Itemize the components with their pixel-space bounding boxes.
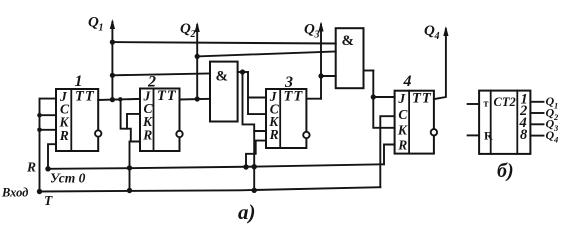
svg-text:Q: Q [180,21,191,37]
wire FF1 K stub [40,129,57,131]
wire reset line Уст 0 [48,164,384,169]
wire AND2 output [364,70,374,72]
svg-text:C: C [398,107,408,122]
svg-text:3: 3 [314,30,320,41]
wire AND1 to FF3 K [243,72,267,131]
wire FF1 Q output to FF2 J [98,99,140,100]
svg-text:TT: TT [157,88,177,104]
node T riser to input line [37,189,42,194]
wire FF1 C stub [40,114,57,116]
svg-text:&: & [216,69,229,85]
node FF1 C junction [37,113,42,118]
wire FF1 R stub down to reset line [48,144,56,169]
node Q3 to AND2 [318,73,323,78]
wire clock input line Вход [40,187,381,191]
svg-text:1: 1 [554,101,558,111]
wire counter T input stub [468,103,480,105]
wire counter output stub 1 [530,101,543,103]
wire FF3 J stub [248,97,266,99]
node FF3 R on reset line [243,164,248,169]
svg-text:R: R [59,128,69,143]
wire Q1 to AND1 input [112,74,210,76]
wire counter output stub 2 [530,112,543,114]
svg-text:т: т [484,99,489,110]
svg-text:Вход: Вход [1,186,28,200]
wire FF2 riser to input line [129,142,131,191]
svg-text:R: R [484,129,493,143]
node Q1 to AND2 line [110,40,115,45]
svg-text:TT: TT [75,89,95,105]
svg-text:TT: TT [412,91,432,107]
svg-text:2: 2 [190,29,196,40]
output riser Q1 with arrow [110,19,115,100]
svg-text:4: 4 [553,135,558,145]
node FF3 riser on reset line [252,164,257,169]
svg-text:Q: Q [424,23,435,39]
node Q1 to AND1 line [110,73,115,78]
svg-text:8: 8 [520,127,528,143]
svg-text:&: & [342,33,355,49]
wire Q3 to AND2 input [321,75,336,77]
wire FF3 R staircase to reset line [246,141,266,167]
svg-text:2: 2 [147,74,156,91]
svg-text:R: R [142,128,152,143]
AND gate D2 box [336,28,364,88]
svg-text:R: R [26,160,36,175]
node Q1 riser junction [110,97,115,102]
inverted output circle FF1 [95,130,101,136]
svg-text:R: R [269,127,279,142]
wire Q2 to AND2 input [197,52,336,57]
svg-text:Q: Q [88,15,99,31]
svg-text:Q: Q [304,22,315,38]
svg-text:R: R [397,138,407,153]
flip-flop 4 box [395,91,434,154]
wire FF2 K feed [121,99,140,141]
node FF3 riser on input line [252,188,257,193]
wire AND1 output [238,71,248,73]
wire FF3 riser to input line [253,131,255,190]
wire FF2 Q output to AND1 input [180,98,211,101]
svg-text:3: 3 [284,74,293,91]
svg-text:J: J [397,91,406,106]
wire FF4 clock riser from input line end [380,116,394,187]
inverted output circle FF3 [303,132,309,138]
wire AND1 to FF3 J and C [248,72,266,114]
wire AND2 to FF4 J [373,71,394,98]
flip-flop 2 box [140,89,180,152]
svg-text:а): а) [238,200,256,224]
AND gate D1 box [210,62,238,122]
output riser Q3 with arrow [318,22,323,99]
flip-flop 1 box [56,89,98,151]
node AND1 output tap [240,69,245,74]
svg-text:T: T [44,193,53,208]
node FF1 K junction [37,128,42,133]
svg-text:4: 4 [434,31,440,42]
arrow Q4 [443,26,448,36]
svg-text:4: 4 [403,73,412,90]
flip-flop 3 box [266,89,306,148]
wire FF3 Q output to Q3 riser [306,98,321,100]
wire counter output stub 4 [530,123,543,125]
svg-text:СТ2: СТ2 [494,95,516,109]
node Q2 to AND2 line [195,54,200,59]
wire AND2 to FF4 K staircase [373,97,394,128]
wire T riser feeding FF1 J/C/K [40,99,57,192]
node FF4 J tap [371,94,376,99]
node FF1 R to reset line [45,166,50,171]
svg-text:K: K [397,123,408,138]
svg-text:б): б) [497,160,514,182]
node FF2 riser on reset line [127,165,132,170]
wire FF4 R riser from reset line end [384,145,395,165]
wire counter R input stub [468,134,480,136]
wire Q1 to AND2 input [112,42,335,43]
node Q2 riser junction [195,96,200,101]
inverted output circle FF2 [176,131,182,137]
node FF2 riser on input line [127,188,132,193]
wire FF2 C stub bracket [127,114,140,129]
wire FF4 Q output to Q4 riser [434,29,446,99]
counter CT2 box [479,91,530,154]
wire counter output stub 8 [530,135,543,137]
node FF2 feed tap [118,97,122,101]
inverted output circle FF4 [431,129,437,135]
svg-text:Уст 0: Уст 0 [50,171,86,186]
svg-text:1: 1 [75,73,83,90]
svg-text:1: 1 [99,23,104,34]
output riser Q2 with arrow [195,22,200,99]
